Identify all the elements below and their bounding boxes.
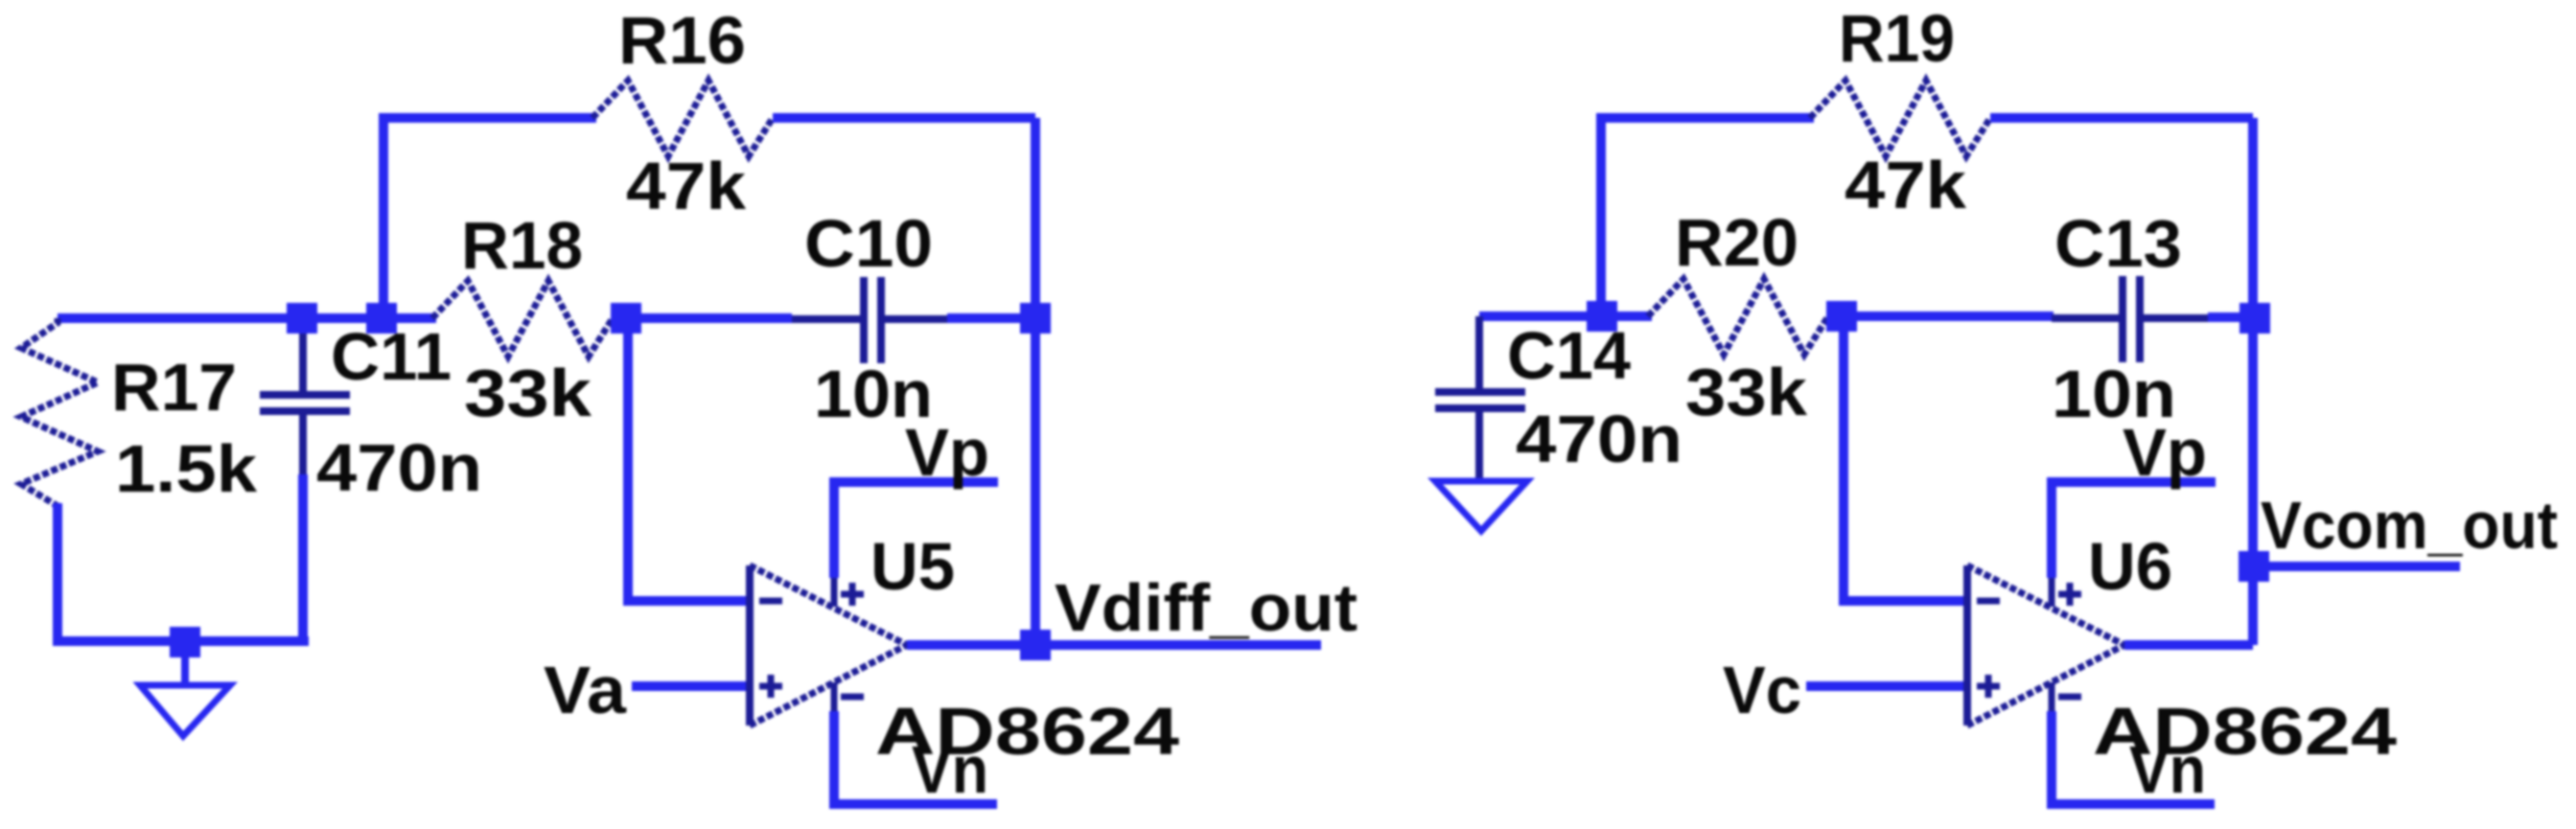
svg-text:C14: C14	[1507, 318, 1631, 393]
wire top loop riser right	[1601, 118, 1814, 316]
ground left	[140, 641, 230, 736]
node square riser right	[1587, 301, 1617, 332]
svg-text:33k: 33k	[1685, 355, 1807, 429]
wire output U5	[907, 640, 1321, 650]
svg-text:1.5k: 1.5k	[115, 431, 257, 506]
wire right rail	[1031, 118, 1040, 645]
wire Vp U5	[834, 482, 998, 578]
svg-text:Vdiff_out: Vdiff_out	[1055, 570, 1358, 645]
svg-text:R17: R17	[111, 350, 237, 425]
op-amp U5	[750, 565, 907, 725]
svg-text:R20: R20	[1675, 205, 1799, 280]
node square R18 right	[611, 303, 641, 334]
node square riser	[366, 303, 397, 334]
capacitor C13	[2052, 276, 2210, 362]
svg-text:Vn: Vn	[2129, 732, 2206, 807]
wire inverting input U5	[628, 318, 750, 601]
wire output U6 apex	[2124, 640, 2253, 650]
wire C11 bottom stem	[298, 474, 308, 641]
svg-text:Vn: Vn	[912, 732, 988, 807]
svg-text:R16: R16	[618, 3, 746, 78]
svg-text:Va: Va	[544, 653, 627, 727]
capacitor C11	[260, 321, 350, 476]
resistor R18	[432, 281, 613, 357]
svg-text:Vp: Vp	[905, 415, 989, 490]
svg-text:Vp: Vp	[2123, 415, 2207, 490]
svg-text:470n: 470n	[316, 430, 482, 505]
wire right rail 2	[2248, 118, 2258, 645]
wire R20 to C13	[1826, 311, 2054, 321]
resistor R20	[1648, 279, 1828, 355]
wire R17 bottom	[58, 503, 309, 641]
svg-text:Vcom_out: Vcom_out	[2261, 488, 2558, 563]
wire top to right rail 2	[1990, 113, 2253, 123]
svg-text:Vc: Vc	[1723, 653, 1801, 727]
svg-text:C10: C10	[804, 206, 933, 281]
resistor R19	[1810, 81, 1990, 156]
op-amp U6	[1967, 565, 2124, 725]
ground right	[1435, 481, 1527, 531]
svg-text:U5: U5	[870, 529, 955, 604]
node square R20 right	[1826, 301, 1857, 332]
svg-text:C13: C13	[2054, 206, 2182, 281]
wire Vc input	[1806, 681, 1967, 691]
wire node left segment	[58, 313, 436, 323]
capacitor C14	[1435, 316, 1525, 479]
svg-text:470n: 470n	[1516, 402, 1683, 476]
svg-text:R18: R18	[461, 208, 583, 283]
node square C13 right	[2239, 303, 2270, 334]
wire Vp U6	[2052, 482, 2216, 578]
wire inverting input U6	[1844, 316, 1967, 601]
wire Vn U5	[834, 711, 997, 804]
svg-text:47k: 47k	[626, 149, 746, 223]
wire top loop riser left	[383, 118, 596, 318]
wire C13 to rail	[2208, 312, 2253, 322]
node square C11	[287, 303, 317, 334]
wire Vn U6	[2052, 711, 2215, 804]
svg-text:33k: 33k	[464, 356, 592, 430]
node square Vcom out	[2239, 551, 2269, 582]
svg-text:U6: U6	[2088, 529, 2172, 604]
wire Vcom out	[2255, 562, 2460, 571]
svg-text:C11: C11	[331, 319, 452, 394]
wire Va input	[632, 681, 750, 691]
wire node segment right	[1479, 311, 1652, 321]
wire C10 to rail	[947, 313, 1035, 323]
node square output U5	[1020, 630, 1051, 660]
wire R18 to C10	[611, 313, 792, 323]
node square C10 right	[1020, 303, 1051, 334]
wire top to right rail	[773, 113, 1035, 123]
node square ground left	[170, 627, 200, 657]
resistor R16	[592, 81, 773, 156]
svg-text:47k: 47k	[1845, 148, 1966, 222]
capacitor C10	[792, 277, 949, 363]
svg-text:R19: R19	[1839, 1, 1955, 76]
resistor R17	[21, 318, 98, 506]
